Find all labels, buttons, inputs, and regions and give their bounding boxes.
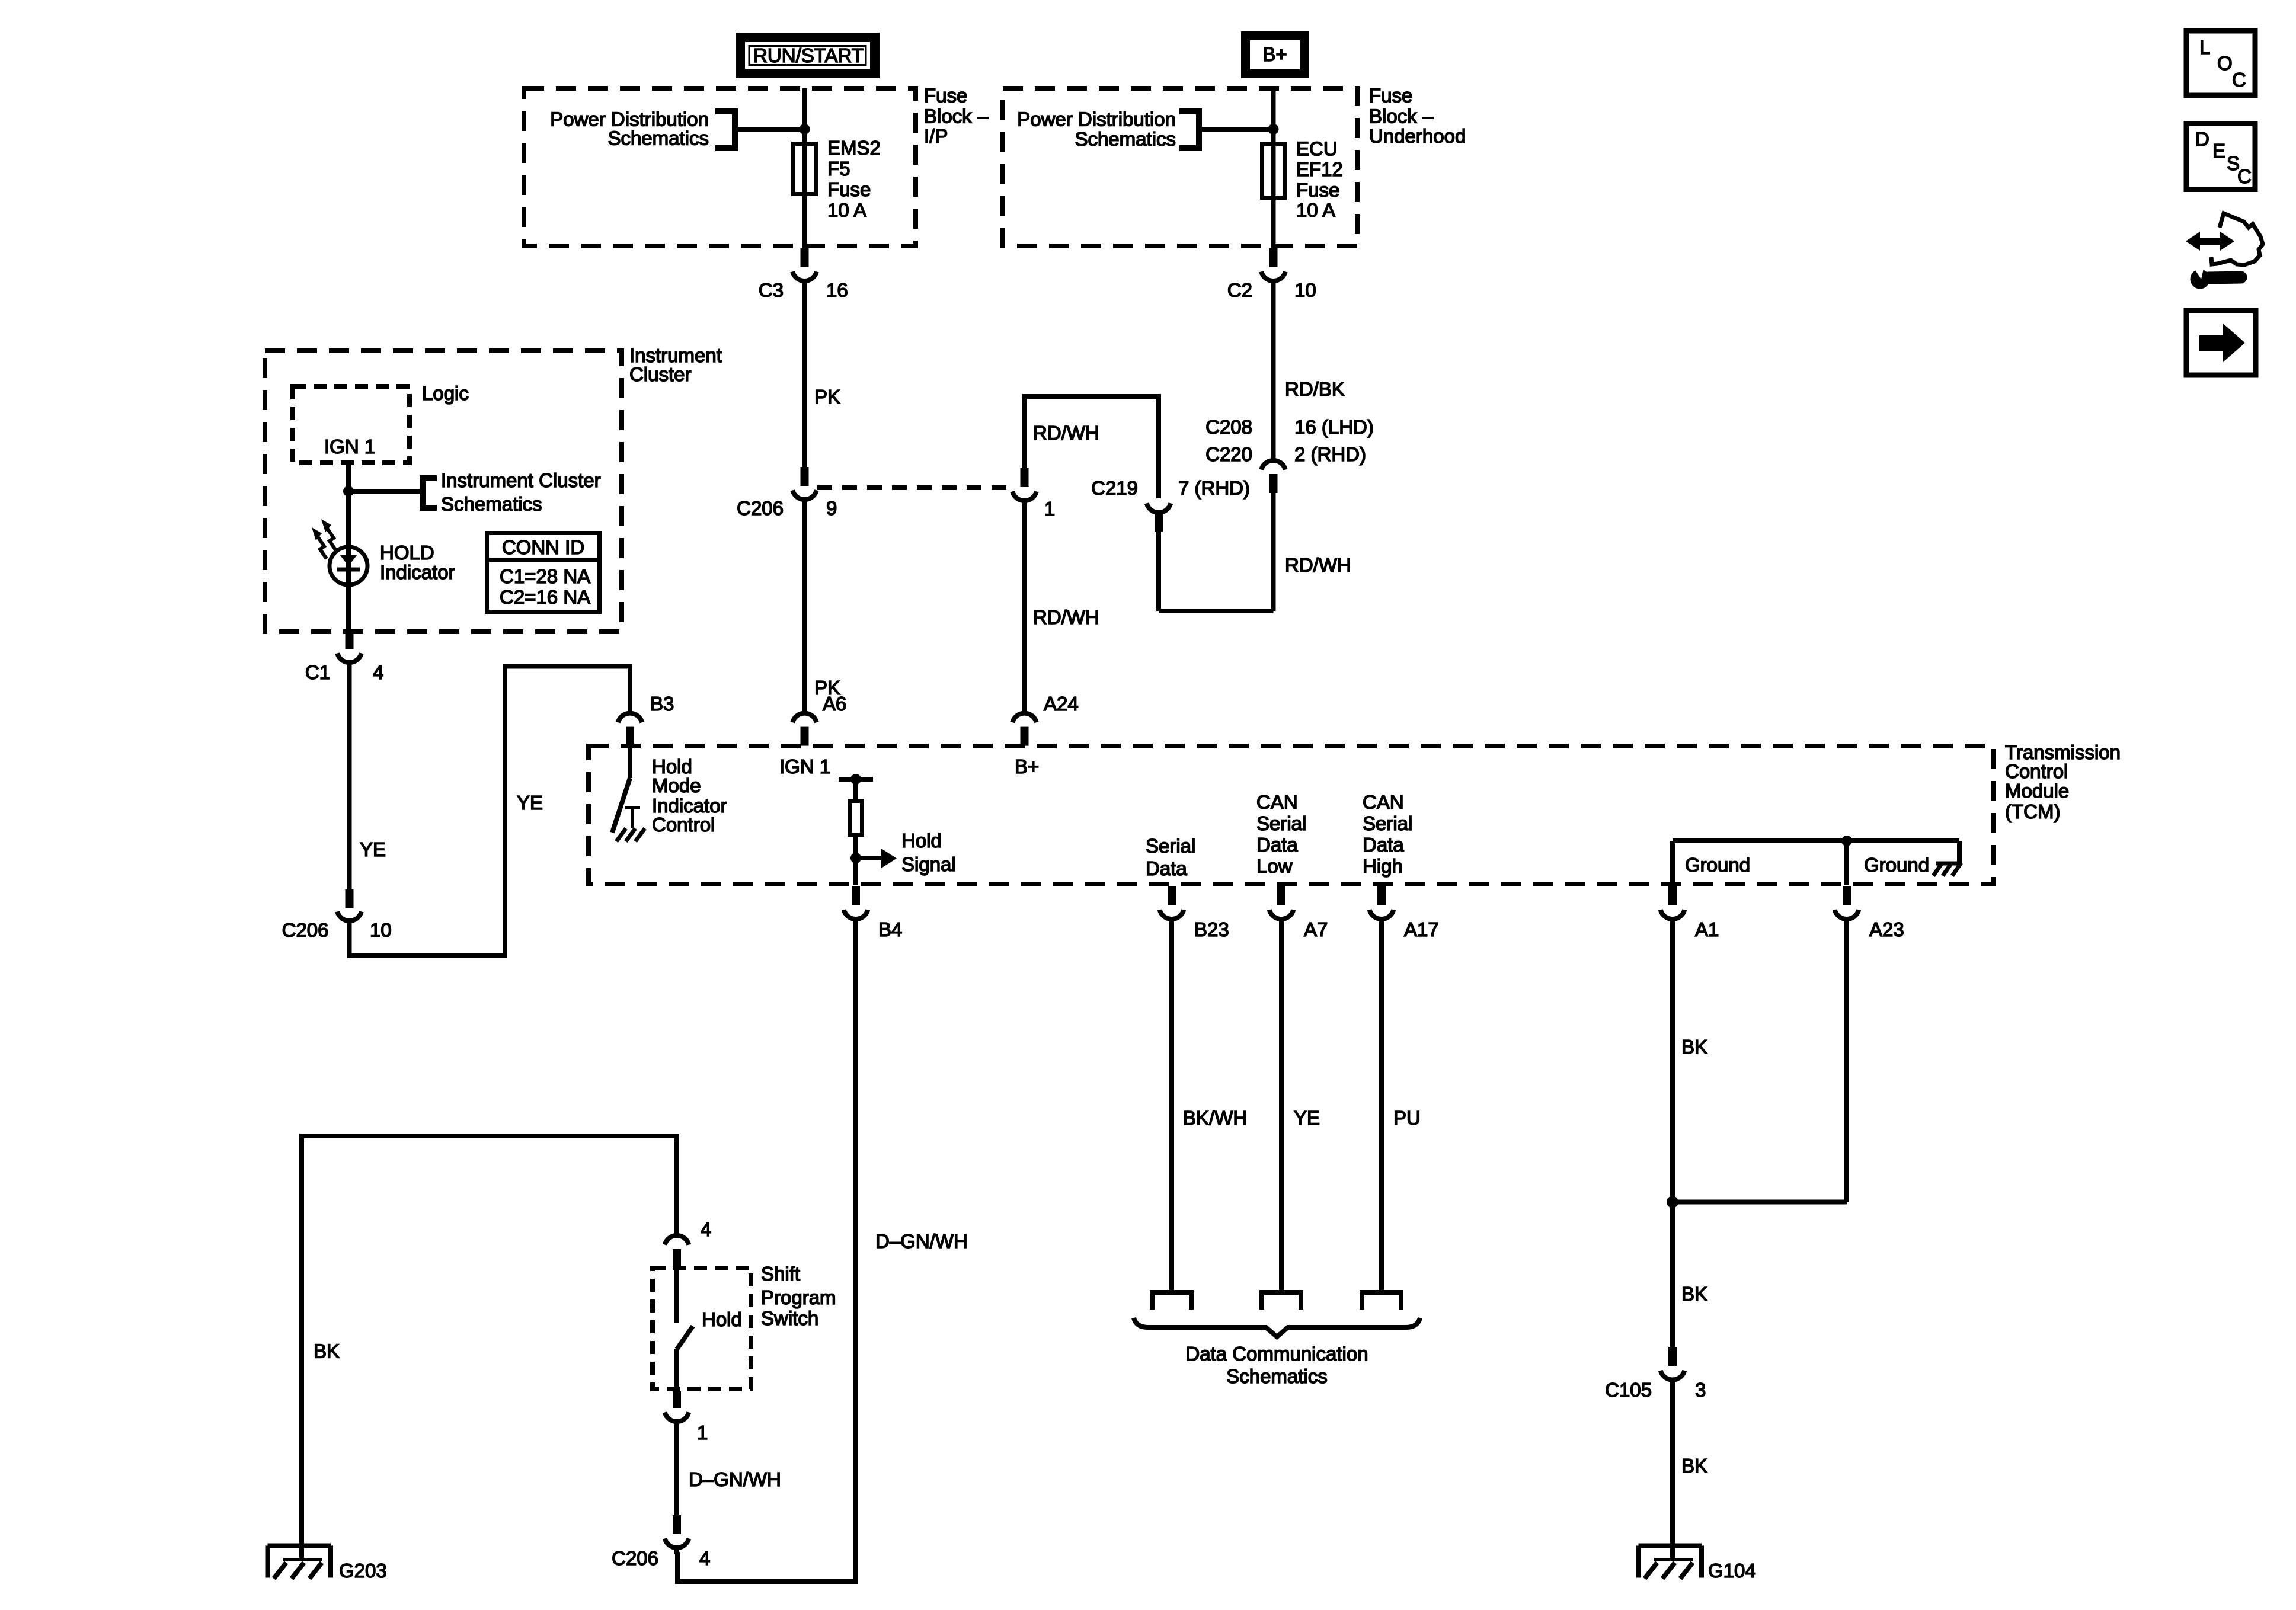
svg-text:G104: G104 xyxy=(1708,1560,1756,1582)
svg-text:A17: A17 xyxy=(1404,918,1439,940)
svg-text:Hold: Hold xyxy=(702,1308,742,1330)
svg-text:Control: Control xyxy=(2005,760,2068,782)
svg-text:Serial: Serial xyxy=(1363,812,1412,834)
svg-text:Hold: Hold xyxy=(901,830,942,852)
svg-text:Fuse: Fuse xyxy=(827,178,871,200)
svg-text:1: 1 xyxy=(1044,498,1055,520)
svg-text:B+: B+ xyxy=(1262,43,1287,65)
svg-text:Power Distribution: Power Distribution xyxy=(1017,108,1176,130)
svg-text:CONN ID: CONN ID xyxy=(502,536,584,558)
svg-text:A24: A24 xyxy=(1044,693,1079,715)
svg-text:B4: B4 xyxy=(878,918,902,940)
svg-text:Data: Data xyxy=(1146,857,1187,879)
svg-text:EF12: EF12 xyxy=(1296,158,1343,180)
svg-text:C208: C208 xyxy=(1205,416,1252,438)
svg-text:Data: Data xyxy=(1363,834,1404,856)
svg-text:CAN: CAN xyxy=(1363,791,1404,813)
svg-text:Shift: Shift xyxy=(761,1263,800,1285)
svg-text:BK: BK xyxy=(1681,1455,1707,1477)
svg-text:16 (LHD): 16 (LHD) xyxy=(1294,416,1374,438)
svg-text:A7: A7 xyxy=(1304,918,1328,940)
svg-text:C2: C2 xyxy=(1227,279,1252,301)
svg-text:CAN: CAN xyxy=(1256,791,1298,813)
svg-text:4: 4 xyxy=(373,661,383,683)
svg-text:4: 4 xyxy=(701,1218,711,1240)
svg-text:E: E xyxy=(2212,140,2225,162)
svg-text:BK: BK xyxy=(1681,1283,1707,1305)
svg-text:BK: BK xyxy=(314,1340,340,1362)
svg-text:C: C xyxy=(2237,165,2252,187)
svg-text:Mode: Mode xyxy=(652,774,701,796)
svg-text:10 A: 10 A xyxy=(1296,199,1335,221)
svg-text:A23: A23 xyxy=(1869,918,1904,940)
svg-text:B3: B3 xyxy=(650,693,674,715)
svg-text:C105: C105 xyxy=(1605,1379,1652,1401)
svg-text:Data Communication: Data Communication xyxy=(1185,1343,1368,1365)
svg-text:Ground: Ground xyxy=(1685,854,1750,876)
svg-text:RUN/START: RUN/START xyxy=(753,44,864,66)
svg-text:IGN 1: IGN 1 xyxy=(779,756,830,777)
svg-text:YE: YE xyxy=(517,792,543,814)
svg-text:7 (RHD): 7 (RHD) xyxy=(1178,477,1250,499)
svg-text:3: 3 xyxy=(1695,1379,1706,1401)
svg-text:RD/WH: RD/WH xyxy=(1285,554,1351,576)
svg-text:Schematics: Schematics xyxy=(607,127,709,149)
svg-text:RD/WH: RD/WH xyxy=(1033,606,1099,628)
svg-text:9: 9 xyxy=(826,497,837,519)
svg-text:A6: A6 xyxy=(823,693,846,715)
svg-text:C219: C219 xyxy=(1091,477,1138,499)
svg-text:C3: C3 xyxy=(759,279,784,301)
svg-text:D–GN/WH: D–GN/WH xyxy=(689,1468,781,1490)
svg-text:YE: YE xyxy=(1294,1107,1320,1129)
svg-text:Instrument Cluster: Instrument Cluster xyxy=(441,469,601,491)
svg-text:1: 1 xyxy=(697,1422,708,1443)
svg-text:10: 10 xyxy=(370,919,392,941)
svg-text:Underhood: Underhood xyxy=(1369,125,1466,147)
svg-text:BK: BK xyxy=(1681,1036,1707,1058)
svg-text:4: 4 xyxy=(699,1547,710,1569)
svg-text:Low: Low xyxy=(1256,855,1293,877)
svg-text:BK/WH: BK/WH xyxy=(1183,1107,1247,1129)
svg-text:HOLD: HOLD xyxy=(380,542,434,564)
svg-text:B23: B23 xyxy=(1194,918,1229,940)
svg-text:C1: C1 xyxy=(305,661,330,683)
svg-text:C206: C206 xyxy=(282,919,329,941)
svg-text:PU: PU xyxy=(1393,1107,1421,1129)
svg-text:Logic: Logic xyxy=(422,382,469,404)
svg-text:Ground: Ground xyxy=(1864,854,1929,876)
svg-text:(TCM): (TCM) xyxy=(2005,801,2060,822)
svg-text:Signal: Signal xyxy=(901,853,956,875)
svg-text:Schematics: Schematics xyxy=(1075,128,1176,150)
svg-text:RD/BK: RD/BK xyxy=(1285,378,1345,400)
svg-text:C: C xyxy=(2232,69,2246,91)
svg-text:10: 10 xyxy=(1294,279,1316,301)
svg-text:IGN 1: IGN 1 xyxy=(324,436,375,457)
svg-text:A1: A1 xyxy=(1695,918,1719,940)
svg-text:Control: Control xyxy=(652,814,715,836)
svg-text:G203: G203 xyxy=(339,1560,387,1582)
svg-text:C206: C206 xyxy=(737,497,784,519)
svg-text:EMS2: EMS2 xyxy=(827,137,881,159)
svg-text:Serial: Serial xyxy=(1256,812,1306,834)
svg-text:Fuse: Fuse xyxy=(1296,179,1339,201)
svg-text:I/P: I/P xyxy=(924,125,948,147)
svg-text:Switch: Switch xyxy=(761,1307,818,1329)
svg-text:Data: Data xyxy=(1256,834,1298,856)
svg-text:Program: Program xyxy=(761,1286,836,1308)
svg-text:D: D xyxy=(2195,128,2209,150)
svg-text:Cluster: Cluster xyxy=(629,363,692,385)
svg-text:2 (RHD): 2 (RHD) xyxy=(1294,443,1366,465)
svg-text:10 A: 10 A xyxy=(827,199,866,221)
svg-text:B+: B+ xyxy=(1015,756,1039,777)
svg-text:Fuse: Fuse xyxy=(924,85,967,107)
svg-text:D–GN/WH: D–GN/WH xyxy=(875,1230,968,1252)
svg-text:C2=16 NA: C2=16 NA xyxy=(500,586,590,608)
svg-text:Serial: Serial xyxy=(1146,835,1195,857)
svg-text:F5: F5 xyxy=(827,158,850,180)
svg-text:L: L xyxy=(2199,36,2210,58)
svg-text:Module: Module xyxy=(2005,780,2069,802)
svg-text:Fuse: Fuse xyxy=(1369,85,1412,107)
svg-text:PK: PK xyxy=(814,386,840,408)
svg-text:16: 16 xyxy=(826,279,848,301)
svg-text:C220: C220 xyxy=(1205,443,1252,465)
svg-text:Indicator: Indicator xyxy=(380,561,455,583)
svg-text:Schematics: Schematics xyxy=(1226,1365,1328,1387)
svg-text:O: O xyxy=(2217,52,2233,74)
svg-text:Block –: Block – xyxy=(924,105,989,127)
svg-text:RD/WH: RD/WH xyxy=(1033,422,1099,444)
svg-text:High: High xyxy=(1363,855,1403,877)
svg-text:C1=28 NA: C1=28 NA xyxy=(500,565,590,587)
svg-text:Block –: Block – xyxy=(1369,105,1434,127)
svg-text:YE: YE xyxy=(360,838,386,860)
svg-text:C206: C206 xyxy=(612,1547,658,1569)
svg-text:Schematics: Schematics xyxy=(441,493,542,515)
svg-text:ECU: ECU xyxy=(1296,138,1338,160)
